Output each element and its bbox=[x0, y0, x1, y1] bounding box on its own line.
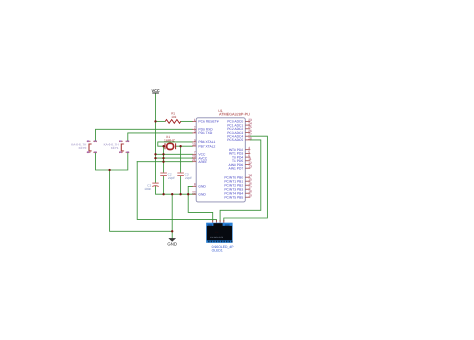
svg-text:28: 28 bbox=[248, 136, 252, 140]
svg-text:PD1 TXD: PD1 TXD bbox=[198, 131, 212, 135]
svg-text:PC6 RESET#: PC6 RESET# bbox=[198, 120, 218, 124]
svg-text:3: 3 bbox=[194, 129, 196, 133]
svg-text:OLED1: OLED1 bbox=[212, 249, 223, 253]
svg-text:13: 13 bbox=[248, 165, 252, 169]
svg-text:KEY0: KEY0 bbox=[79, 146, 87, 150]
svg-text:0.96 INCH OLED: 0.96 INCH OLED bbox=[210, 236, 224, 239]
svg-text:19: 19 bbox=[248, 194, 252, 198]
svg-text:22pF: 22pF bbox=[185, 176, 192, 180]
svg-text:1: 1 bbox=[194, 118, 196, 122]
svg-text:0.96: 0.96 bbox=[215, 231, 219, 234]
svg-text:PB7 XTAL2: PB7 XTAL2 bbox=[198, 144, 215, 148]
svg-text:10: 10 bbox=[192, 142, 196, 146]
svg-text:21: 21 bbox=[192, 158, 196, 162]
svg-text:GND: GND bbox=[167, 242, 177, 247]
svg-text:100n: 100n bbox=[144, 187, 151, 191]
svg-text:16MHZ: 16MHZ bbox=[164, 138, 175, 142]
svg-text:AIN1 PD7: AIN1 PD7 bbox=[229, 166, 244, 170]
svg-text:ATMEGA328P-PU: ATMEGA328P-PU bbox=[219, 112, 250, 116]
svg-text:22pF: 22pF bbox=[168, 176, 175, 180]
svg-text:KEY1: KEY1 bbox=[111, 146, 119, 150]
svg-text:8: 8 bbox=[194, 183, 196, 187]
svg-text:GND: GND bbox=[198, 185, 206, 189]
svg-text:VCC: VCC bbox=[151, 88, 159, 93]
svg-text:22: 22 bbox=[192, 191, 196, 195]
svg-text:PCINT5 PB5: PCINT5 PB5 bbox=[224, 195, 243, 199]
svg-text:GND: GND bbox=[198, 192, 206, 196]
svg-text:PC5 ADC5: PC5 ADC5 bbox=[227, 138, 243, 142]
svg-text:AREF: AREF bbox=[198, 160, 207, 164]
svg-text:10k: 10k bbox=[171, 115, 176, 119]
